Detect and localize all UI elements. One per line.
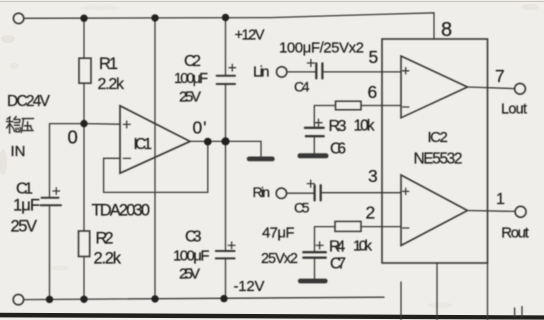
svg-text:0: 0 [68, 127, 78, 148]
svg-text:Rin: Rin [253, 184, 271, 200]
svg-text:-12V: -12V [234, 278, 265, 295]
svg-text:Lout: Lout [501, 102, 527, 118]
svg-text:C5: C5 [294, 200, 310, 216]
svg-text:DC24V: DC24V [7, 93, 51, 110]
svg-text:1μF: 1μF [13, 197, 40, 215]
svg-text:+12V: +12V [235, 28, 265, 44]
svg-text:2.2k: 2.2k [98, 76, 126, 93]
svg-text:IC1: IC1 [134, 136, 153, 153]
svg-text:R2: R2 [96, 230, 114, 248]
svg-text:10k: 10k [354, 118, 375, 135]
svg-text:C3: C3 [185, 229, 202, 246]
svg-text:C2: C2 [184, 53, 201, 70]
svg-text:47μF: 47μF [262, 225, 295, 242]
svg-text:2: 2 [366, 203, 376, 223]
svg-text:100μF: 100μF [174, 71, 208, 87]
svg-text:Rout: Rout [501, 225, 529, 242]
svg-text:C1: C1 [16, 181, 33, 198]
svg-text:25V: 25V [179, 266, 200, 283]
svg-text:R4: R4 [329, 239, 346, 256]
svg-text:2.2k: 2.2k [94, 250, 122, 268]
svg-text:NE5532: NE5532 [414, 151, 463, 168]
svg-text:8: 8 [441, 19, 452, 41]
svg-text:C6: C6 [330, 141, 346, 158]
svg-text:10k: 10k [353, 238, 373, 255]
svg-text:IC2: IC2 [428, 129, 448, 146]
svg-text:R3: R3 [329, 118, 347, 135]
svg-text:R1: R1 [99, 55, 118, 73]
svg-text:7: 7 [495, 66, 505, 86]
svg-text:100μF/25Vx2: 100μF/25Vx2 [279, 40, 364, 57]
svg-text:0': 0' [193, 118, 207, 138]
svg-text:Lin: Lin [253, 64, 270, 81]
svg-text:C4: C4 [294, 79, 310, 95]
svg-text:6: 6 [368, 82, 378, 102]
svg-text:IN: IN [11, 143, 26, 160]
svg-text:C7: C7 [330, 256, 346, 273]
svg-text:1: 1 [496, 191, 505, 208]
svg-text:100μF: 100μF [173, 248, 210, 265]
svg-text:TDA2030: TDA2030 [92, 202, 151, 220]
svg-text:25V: 25V [11, 218, 38, 236]
svg-text:25Vx2: 25Vx2 [261, 251, 298, 267]
svg-text:25V: 25V [179, 89, 201, 106]
svg-text:3: 3 [368, 166, 378, 186]
svg-text:5: 5 [369, 47, 379, 67]
